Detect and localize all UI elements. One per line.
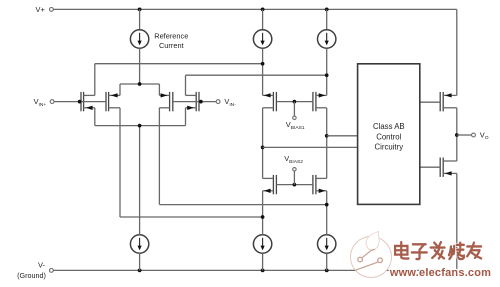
svg-text:Reference: Reference [154,32,188,41]
svg-text:Circuitry: Circuitry [375,142,404,151]
svg-text:V-: V- [38,261,46,270]
svg-text:Class AB: Class AB [373,122,405,131]
svg-text:www.elecfans.com: www.elecfans.com [389,267,491,279]
svg-text:Current: Current [159,41,184,50]
svg-text:Control: Control [376,132,401,141]
svg-text:(Ground): (Ground) [17,271,46,280]
svg-text:V+: V+ [36,5,45,14]
